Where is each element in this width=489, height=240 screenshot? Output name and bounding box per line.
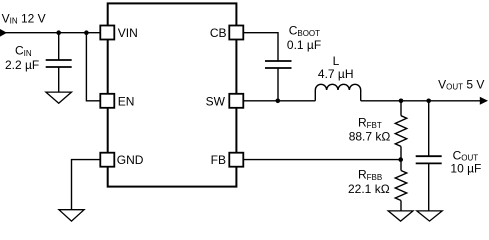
svg-text:0.1 µF: 0.1 µF: [287, 38, 321, 52]
svg-text:88.7 kΩ: 88.7 kΩ: [349, 130, 391, 144]
svg-text:22.1 kΩ: 22.1 kΩ: [348, 182, 390, 196]
svg-text:CBOOT: CBOOT: [289, 24, 320, 38]
svg-text:RFBB: RFBB: [358, 168, 382, 182]
svg-text:SW: SW: [206, 94, 226, 108]
svg-text:FB: FB: [211, 153, 226, 167]
svg-text:VIN: VIN: [118, 26, 138, 40]
svg-text:RFBT: RFBT: [358, 116, 382, 130]
svg-text:VIN 12 V: VIN 12 V: [2, 11, 46, 25]
svg-text:10 µF: 10 µF: [450, 161, 481, 175]
svg-text:EN: EN: [118, 94, 135, 108]
svg-text:CIN: CIN: [15, 44, 32, 58]
svg-text:COUT: COUT: [453, 148, 479, 162]
svg-text:VOUT 5 V: VOUT 5 V: [438, 77, 484, 91]
svg-text:CB: CB: [210, 26, 227, 40]
svg-text:GND: GND: [117, 153, 144, 167]
svg-text:L: L: [333, 54, 340, 68]
svg-text:2.2 µF: 2.2 µF: [5, 58, 39, 72]
svg-text:4.7 µH: 4.7 µH: [318, 67, 354, 81]
